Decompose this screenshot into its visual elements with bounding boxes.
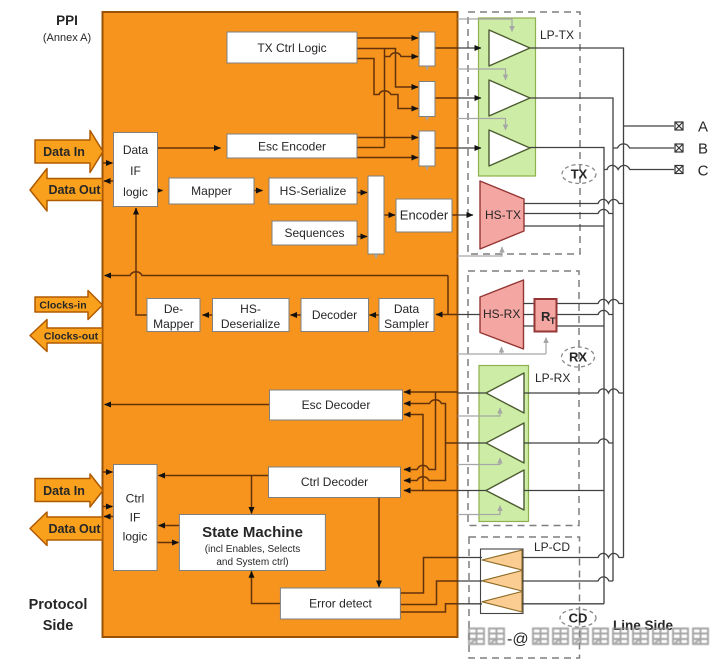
svg-text:HS-: HS- — [240, 302, 261, 316]
svg-text:IF: IF — [130, 511, 141, 525]
svg-text:Error detect: Error detect — [309, 597, 372, 611]
svg-text:Data In: Data In — [43, 145, 85, 159]
svg-text:Esc Encoder: Esc Encoder — [258, 140, 326, 154]
svg-text:Protocol: Protocol — [29, 597, 88, 613]
svg-text:State Machine: State Machine — [202, 524, 303, 541]
svg-text:logic: logic — [123, 530, 148, 544]
svg-text:CD: CD — [569, 611, 588, 626]
svg-text:HS-RX: HS-RX — [483, 307, 520, 321]
svg-text:Decoder: Decoder — [312, 308, 357, 322]
svg-text:Side: Side — [43, 618, 74, 634]
svg-text:Ctrl Decoder: Ctrl Decoder — [301, 475, 368, 489]
svg-text:Encoder: Encoder — [400, 208, 449, 223]
svg-text:RX: RX — [569, 350, 587, 365]
svg-text:Ctrl: Ctrl — [126, 492, 145, 506]
svg-text:C: C — [698, 163, 709, 180]
svg-text:Data: Data — [394, 302, 420, 316]
svg-text:Data: Data — [123, 143, 149, 157]
svg-text:Data Out: Data Out — [48, 183, 101, 197]
svg-text:Line Side: Line Side — [613, 618, 674, 633]
svg-text:HS-Serialize: HS-Serialize — [280, 184, 347, 198]
svg-text:Clocks-in: Clocks-in — [39, 300, 86, 312]
svg-text:Esc Decoder: Esc Decoder — [302, 398, 371, 412]
svg-text:T: T — [550, 316, 556, 326]
svg-text:(Annex A): (Annex A) — [43, 32, 91, 44]
svg-text:logic: logic — [123, 185, 148, 199]
svg-text:TX Ctrl Logic: TX Ctrl Logic — [257, 41, 326, 55]
svg-text:HS-TX: HS-TX — [485, 208, 521, 222]
svg-text:TX: TX — [571, 167, 588, 182]
svg-text:Mapper: Mapper — [153, 317, 194, 331]
svg-text:LP-TX: LP-TX — [540, 28, 574, 42]
svg-text:Mapper: Mapper — [191, 184, 232, 198]
svg-text:Deserialize: Deserialize — [221, 317, 281, 331]
svg-text:Data In: Data In — [43, 484, 85, 498]
svg-text:and System ctrl): and System ctrl) — [216, 557, 288, 568]
svg-text:LP-CD: LP-CD — [534, 540, 570, 554]
svg-text:LP-RX: LP-RX — [535, 371, 570, 385]
svg-text:Data Out: Data Out — [48, 522, 101, 536]
svg-text:De-: De- — [164, 302, 183, 316]
svg-text:B: B — [698, 141, 708, 158]
svg-text:A: A — [698, 119, 708, 136]
svg-text:Sequences: Sequences — [284, 226, 344, 240]
svg-text:Clocks-out: Clocks-out — [44, 331, 99, 343]
svg-text:Sampler: Sampler — [384, 317, 429, 331]
svg-text:PPI: PPI — [56, 13, 78, 28]
svg-text:(incl Enables, Selects: (incl Enables, Selects — [205, 544, 301, 555]
svg-text:IF: IF — [130, 164, 141, 178]
svg-text:-@: -@ — [507, 631, 529, 648]
